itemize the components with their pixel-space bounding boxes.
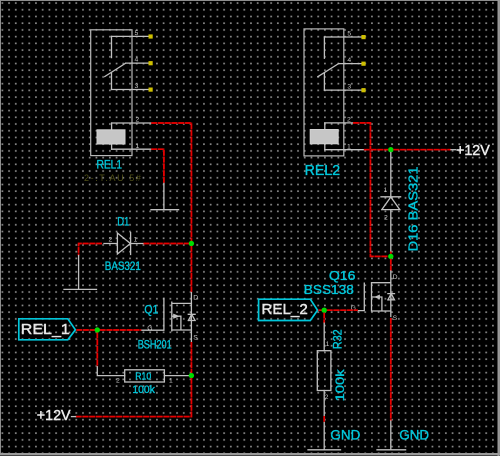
svg-text:D16 BAS321: D16 BAS321	[406, 167, 421, 252]
GND symbol right	[377, 427, 429, 450]
R10 left lead	[97, 367, 124, 376]
R10 right lead	[164, 375, 188, 377]
REL2 switch arm	[318, 64, 339, 77]
wire GND lead right	[390, 421, 392, 442]
svg-text:S: S	[193, 335, 198, 342]
svg-text:4: 4	[347, 57, 351, 64]
wire REL2 pin2 to lower node	[353, 123, 388, 257]
diode D16	[381, 153, 401, 252]
wire D1 anode branch	[79, 244, 102, 256]
svg-text:REL1: REL1	[97, 157, 123, 171]
wire node to +12V rail	[75, 378, 191, 417]
REL1 pin 4	[126, 62, 149, 64]
wire REL2 pin1 to +12V node	[364, 149, 388, 151]
wire D1 cathode to node	[144, 243, 190, 245]
REL2 contact bracket	[323, 37, 325, 90]
REL1 coil	[97, 130, 125, 144]
REL2 coil pin 1	[325, 149, 364, 151]
svg-text:G: G	[147, 325, 152, 332]
svg-text:BSS138: BSS138	[304, 283, 354, 297]
transistor Q1	[141, 293, 195, 343]
transistor Q16	[358, 271, 395, 317]
R32 bottom lead	[323, 391, 325, 417]
REL1 pad 4	[149, 61, 153, 65]
REL1 coil bracket	[111, 123, 113, 149]
net flag REL_2	[259, 299, 318, 320]
wire node to +12V label	[393, 149, 451, 151]
wire gate node to R32	[323, 313, 325, 324]
supply symbol T1	[151, 183, 179, 209]
svg-text:1: 1	[136, 143, 140, 150]
wire REL_2 to gate	[318, 309, 357, 311]
svg-text:R10: R10	[135, 371, 151, 383]
svg-text:2: 2	[136, 117, 140, 124]
REL2 pad 4	[361, 62, 365, 66]
+12V supply stub right	[451, 149, 456, 151]
REL2 pin 4	[339, 63, 362, 65]
svg-text:3: 3	[135, 83, 139, 90]
wire Q1 source to node	[190, 342, 192, 373]
wire REL_1 to gate	[76, 329, 141, 331]
REL1 contact bracket	[111, 36, 113, 89]
REL2 coil pin 2	[325, 122, 353, 124]
svg-text:Q16: Q16	[329, 269, 356, 283]
svg-text:2: 2	[325, 394, 329, 401]
svg-text:1: 1	[347, 143, 351, 150]
svg-text:REL2: REL2	[305, 163, 341, 179]
REL2 pad 5	[361, 35, 365, 39]
GND symbol left	[308, 423, 360, 450]
junction +12V node	[388, 147, 393, 152]
svg-text:100k: 100k	[132, 384, 155, 396]
REL2 pin 5	[324, 36, 362, 38]
relay REL2	[304, 29, 344, 156]
svg-text:+12V: +12V	[456, 143, 490, 159]
svg-text:Q1: Q1	[144, 302, 158, 316]
junction R10 node	[189, 373, 194, 378]
junction lower node	[388, 254, 393, 259]
resistor R32	[317, 351, 331, 391]
junction drain node	[189, 241, 194, 246]
wire D16 anode to node	[390, 252, 392, 254]
diode D1	[104, 233, 144, 255]
svg-text:BAS321: BAS321	[105, 261, 141, 273]
svg-text:2: 2	[116, 378, 120, 385]
svg-text:2: 2	[109, 237, 113, 244]
junction gate node 2	[322, 308, 327, 313]
R32 top lead	[323, 323, 325, 351]
svg-text:BSH201: BSH201	[138, 339, 172, 351]
wire net pin2 to drain node	[151, 123, 191, 244]
svg-text:5: 5	[135, 30, 139, 37]
REL1 pad 3	[149, 88, 153, 92]
net flag REL_1	[19, 319, 76, 340]
relay REL1	[91, 30, 132, 156]
svg-text:2: 2	[384, 215, 388, 222]
svg-text:5: 5	[347, 31, 351, 38]
svg-text:1: 1	[384, 187, 388, 194]
REL1 pin 3	[112, 89, 150, 91]
svg-text:D1: D1	[117, 217, 129, 229]
junction gate node	[95, 327, 100, 332]
resistor R10	[125, 370, 165, 382]
svg-text:4: 4	[135, 57, 139, 64]
svg-text:R32: R32	[333, 329, 345, 349]
svg-text:2: 2	[347, 117, 351, 124]
wire gate node down to R10	[96, 333, 98, 367]
svg-text:100k: 100k	[333, 368, 347, 401]
svg-text:2-.T.AU 5#: 2-.T.AU 5#	[84, 173, 143, 183]
svg-text:D: D	[393, 274, 398, 281]
svg-text:S: S	[393, 315, 398, 322]
wire Q16 source to GND	[390, 318, 392, 421]
REL1 coil pin 1	[112, 148, 152, 150]
wire node to Q1 drain	[190, 246, 192, 293]
REL1 pin 5	[112, 35, 150, 37]
svg-text:1: 1	[134, 237, 138, 244]
svg-text:REL_2: REL_2	[261, 301, 307, 318]
+12V supply stub	[72, 416, 76, 418]
wire node to Q16 drain	[390, 259, 392, 271]
svg-text:REL_1: REL_1	[21, 321, 70, 338]
REL2 pad 3	[361, 88, 365, 92]
REL1 coil pin 2	[112, 122, 152, 124]
REL2 coil bracket	[324, 123, 326, 150]
svg-text:D: D	[193, 295, 198, 302]
REL2 coil	[310, 130, 338, 144]
svg-text:+12V: +12V	[37, 408, 71, 424]
REL2 pin 3	[324, 89, 362, 91]
svg-text:1: 1	[326, 341, 330, 348]
supply symbol T2	[64, 256, 97, 290]
REL1 switch arm	[105, 63, 126, 76]
svg-text:3: 3	[347, 84, 351, 91]
REL1 pad 5	[149, 34, 153, 38]
svg-text:GND: GND	[399, 427, 429, 443]
wire R32 to GND	[323, 416, 325, 423]
svg-text:GND: GND	[330, 427, 360, 443]
wire pin1 to supply T	[151, 149, 164, 183]
svg-text:1: 1	[169, 378, 173, 385]
